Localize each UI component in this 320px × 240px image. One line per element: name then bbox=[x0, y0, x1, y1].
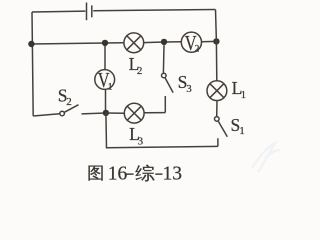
svg-text:16: 16 bbox=[108, 164, 128, 185]
svg-text:2: 2 bbox=[195, 45, 200, 55]
svg-text:2: 2 bbox=[137, 65, 143, 77]
svg-text:13: 13 bbox=[163, 164, 183, 185]
svg-text:1: 1 bbox=[108, 82, 113, 92]
svg-text:3: 3 bbox=[138, 136, 144, 148]
svg-text:1: 1 bbox=[241, 89, 247, 101]
svg-text:2: 2 bbox=[66, 96, 72, 108]
svg-text:1: 1 bbox=[239, 125, 245, 137]
svg-text:3: 3 bbox=[186, 83, 192, 95]
